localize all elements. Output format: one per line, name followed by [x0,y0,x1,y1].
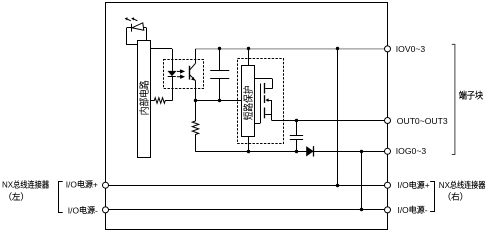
svg-text:IOV0~3: IOV0~3 [396,44,426,54]
svg-text:IOG0~3: IOG0~3 [396,146,427,156]
svg-text:NX: NX [2,181,14,190]
svg-text:I/O: I/O [66,179,78,189]
svg-text:I/O: I/O [68,205,80,215]
svg-text:+: + [93,179,98,189]
svg-text:I/O: I/O [398,180,410,190]
svg-text:-: - [95,205,98,215]
svg-text:I/O: I/O [398,205,410,215]
svg-text:OUT0~OUT3: OUT0~OUT3 [397,116,448,126]
svg-text:NX: NX [439,181,451,190]
svg-text:+: + [425,180,430,190]
svg-text:-: - [425,205,428,215]
